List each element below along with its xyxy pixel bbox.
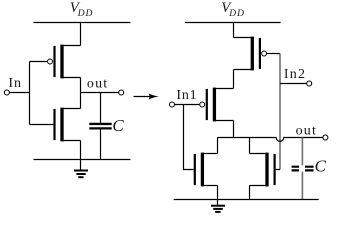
VDD rail (left) [34, 22, 131, 24]
node In terminal [4, 90, 9, 95]
svg-text:DD: DD [77, 9, 94, 19]
transistor M1 PMOS (gate In1) [200, 88, 234, 122]
wire VDD rail to Q1 source [80, 23, 82, 46]
wire Q2 source to ground rail [80, 141, 82, 160]
wire M2 bubble to In2 line [267, 53, 280, 55]
transistor Q2 NMOS (left inverter) [55, 108, 81, 142]
svg-text:out: out [87, 76, 109, 91]
svg-text:In2: In2 [284, 67, 306, 82]
wire out [81, 92, 119, 94]
wire M4 source to ground rail [249, 186, 251, 200]
VDD rail (right) [185, 22, 281, 24]
wire Q1 drain to Q2 drain (out node vertical) [80, 78, 82, 109]
capacitor C2 (right load) [292, 138, 314, 200]
wire out node with hop over In2 [218, 138, 323, 142]
node In1 terminal [170, 102, 175, 107]
ground symbol (left) [74, 160, 88, 178]
wire In2 terminal to vertical [280, 83, 307, 85]
node out terminal [119, 90, 124, 95]
wire In to Q2 gate [30, 124, 54, 126]
wire out node to M3 drain [217, 138, 219, 154]
transistor Q1 PMOS (left inverter) [48, 45, 81, 79]
net VDD label (left) [70, 0, 94, 19]
arrow between circuits [134, 93, 160, 99]
wire In vertical [29, 62, 31, 125]
wire out node to M4 drain [249, 138, 251, 154]
wire M2 drain down to M1 source (staircase) [233, 70, 235, 89]
net VDD label (right) [221, 0, 245, 19]
wire In1 terminal to M1 bubble [175, 104, 200, 106]
svg-text:C: C [315, 157, 327, 176]
wire In terminal to vertical [9, 92, 29, 94]
ground rail (right bottom) [174, 199, 319, 201]
svg-text:In1: In1 [176, 88, 197, 103]
wire In1 vertical to M3 gate [184, 105, 194, 170]
ground rail (left bottom) [34, 159, 131, 161]
node In2 terminal [307, 81, 312, 86]
svg-text:out: out [296, 123, 318, 138]
node out terminal (right) [323, 135, 328, 140]
wire In to Q1 gate bubble [30, 61, 48, 63]
svg-text:DD: DD [228, 9, 245, 19]
wire M3 source to ground rail [217, 186, 219, 200]
wire VDD rail to M2 source [233, 23, 235, 38]
transistor M2 PMOS (gate In2, mirrored) [234, 37, 267, 71]
wire In2 vertical (gray) [279, 54, 281, 170]
capacitor C1 (left load) [89, 93, 111, 160]
wire M1 drain down to out node [233, 121, 235, 138]
transistor M3 NMOS (gate In1) [195, 153, 218, 187]
svg-text:In: In [8, 76, 21, 91]
transistor M4 NMOS (gate In2, mirrored) [250, 153, 275, 187]
svg-text:C: C [112, 116, 124, 135]
wire In2 line to M4 gate [276, 169, 280, 171]
ground symbol (right) [211, 200, 225, 212]
